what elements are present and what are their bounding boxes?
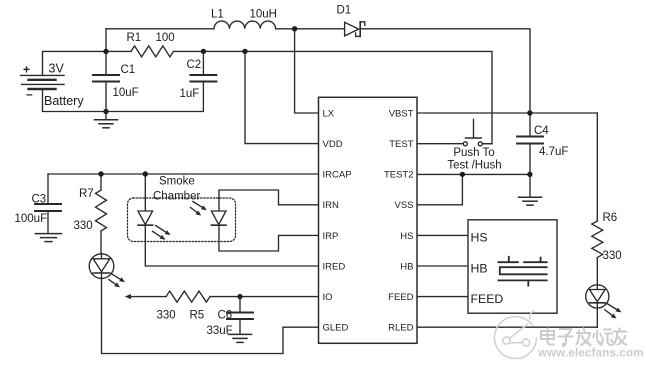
wire R5 left lead with arrow (130, 296, 167, 298)
svg-text:10uF: 10uF (113, 87, 139, 99)
svg-text:R5: R5 (190, 310, 205, 322)
resistor R6 (592, 221, 603, 257)
svg-text:IO: IO (323, 292, 333, 303)
diode D1 schottky (345, 22, 365, 37)
wire FEED stub (417, 296, 468, 298)
node TEST2/VSS (460, 172, 465, 177)
wire R7 top lead (100, 174, 102, 190)
node C2 top (201, 49, 206, 54)
svg-text:HB: HB (471, 261, 488, 275)
node LX branch (292, 26, 297, 31)
wire LX branch down to LX pin (295, 29, 319, 113)
photodiode inside chamber (191, 202, 227, 226)
resistor R5 (166, 291, 210, 302)
svg-text:Smoke: Smoke (159, 176, 195, 188)
node C4/gnd (527, 172, 532, 177)
wire C2 top lead (202, 51, 204, 75)
wire RLED rail (417, 326, 597, 328)
wire IRN pin to photodiode anode (219, 190, 319, 211)
svg-text:Battery: Battery (44, 94, 84, 108)
IC U1 (319, 97, 418, 343)
wire C3 ground stub (47, 211, 49, 233)
red LED (RLED) (586, 285, 622, 319)
node VBST/C4 (527, 110, 532, 115)
svg-text:Push To: Push To (453, 147, 494, 159)
wire top rail left (node A up to LX rail) (105, 29, 107, 52)
svg-text:R6: R6 (603, 212, 618, 224)
capacitor C3 (35, 204, 61, 211)
wire IRCAP rail (48, 173, 319, 175)
svg-text:www.elecfans.com: www.elecfans.com (537, 348, 644, 360)
wire switch right contact to drop (482, 143, 492, 145)
wire C1 top lead (105, 51, 107, 75)
wire photodiode cathode to IRP pin (219, 225, 319, 251)
wire C1 bottom lead (105, 82, 107, 112)
horn driver block (468, 220, 557, 313)
piezo horn symbol (498, 257, 546, 286)
wire C4 bottom lead (529, 144, 531, 175)
wire R7 bottom lead to green LED (100, 231, 102, 254)
ground under C6 (229, 334, 252, 342)
svg-text:C2: C2 (187, 59, 202, 71)
svg-text:IRCAP: IRCAP (323, 170, 352, 181)
wire R5 right lead (210, 296, 240, 298)
capacitor C2 (190, 75, 216, 82)
svg-text:33uF: 33uF (207, 325, 233, 337)
wire mid rail R1 right to switch drop (174, 51, 493, 143)
svg-text:+: + (23, 63, 30, 77)
wire IR LED anode from IRCAP rail (144, 174, 146, 211)
svg-text:TEST2: TEST2 (384, 170, 414, 181)
watermark logo circle (495, 311, 537, 359)
wire TEST2 rail (417, 173, 530, 175)
svg-text:R7: R7 (79, 188, 94, 200)
svg-text:VSS: VSS (394, 200, 413, 211)
wire C6 ground stub (239, 319, 241, 334)
ground under C3 (36, 234, 62, 242)
wire L1 to D1 anode (276, 28, 345, 30)
resistor R7 (96, 190, 107, 231)
wire battery minus to ground rail (43, 89, 107, 112)
svg-text:C3: C3 (32, 194, 47, 206)
wire C2 bottom to ground rail (106, 82, 203, 112)
capacitor C4 (517, 137, 543, 144)
wire HB stub (417, 265, 468, 267)
svg-text:D1: D1 (337, 5, 352, 17)
svg-text:C1: C1 (121, 64, 136, 76)
wire green LED cathode to GLED pin (102, 278, 319, 353)
svg-text:100uF: 100uF (15, 213, 48, 225)
wire R6 top lead (596, 113, 598, 221)
wire HS stub (417, 234, 468, 236)
inductor L1 (214, 21, 276, 29)
node gnd rail (103, 109, 108, 114)
svg-text:HS: HS (400, 231, 413, 242)
svg-text:IRED: IRED (323, 261, 346, 272)
node VDD branch (242, 49, 247, 54)
svg-text:LX: LX (323, 108, 335, 119)
smoke chamber enclosure (128, 198, 236, 242)
svg-text:C4: C4 (534, 125, 549, 137)
svg-text:C6: C6 (218, 310, 233, 322)
capacitor C6 (227, 313, 253, 320)
wire VBST pin rail to R6 branch (417, 112, 597, 114)
svg-text:R1: R1 (127, 32, 142, 44)
pushbutton SW1 (463, 119, 482, 146)
svg-text:GLED: GLED (323, 323, 349, 334)
ground under C1 (95, 120, 118, 128)
svg-text:330: 330 (74, 220, 93, 232)
green LED (GLED) (89, 254, 125, 288)
node R7/IRCAP (98, 171, 103, 176)
wire mid rail R1 left lead (106, 50, 131, 52)
wire D1 cathode to VBST corner (361, 29, 530, 113)
svg-text:VBST: VBST (389, 108, 414, 119)
wire IR LED cathode to IRED pin (145, 225, 318, 266)
wire TEST2 to VSS (417, 174, 462, 204)
node A (bat/R1/C1) (103, 49, 108, 54)
node IO/R5/C6 (237, 294, 242, 299)
watermark chinese glyphs (541, 328, 627, 347)
wire TEST pin to switch left contact (417, 143, 463, 145)
capacitor C1 (93, 75, 119, 82)
ground under C4 (519, 197, 542, 205)
svg-text:4.7uF: 4.7uF (539, 146, 568, 158)
svg-text:3V: 3V (49, 62, 65, 76)
wire R6 bottom lead to red LED (596, 258, 598, 286)
wire red LED cathode down (596, 308, 598, 327)
wire C6 top lead (239, 297, 241, 313)
svg-text:IRN: IRN (323, 200, 340, 211)
svg-text:FEED: FEED (388, 292, 413, 303)
svg-text:VDD: VDD (323, 139, 343, 150)
svg-text:RLED: RLED (388, 323, 413, 334)
svg-text:10uH: 10uH (250, 9, 278, 21)
resistor R1 (131, 46, 173, 57)
svg-text:–: – (26, 87, 33, 101)
wire LX rail to L1 (106, 28, 214, 30)
svg-text:Test /Hush: Test /Hush (447, 160, 501, 172)
wire C1 ground stub (105, 112, 107, 120)
svg-text:TEST: TEST (389, 139, 413, 150)
node IR LED/IRCAP (143, 171, 148, 176)
wire battery top to node A (43, 51, 107, 75)
svg-text:330: 330 (157, 310, 176, 322)
wire C4 ground stub (529, 174, 531, 196)
wire IO pin to node R5/C6 (240, 296, 319, 298)
wire C4 top lead (529, 113, 531, 136)
svg-text:IRP: IRP (323, 231, 339, 242)
svg-text:100: 100 (156, 32, 175, 44)
svg-text:L1: L1 (211, 9, 224, 21)
battery BT1 3V (21, 75, 65, 89)
svg-text:HS: HS (471, 231, 488, 245)
svg-text:Chamber: Chamber (153, 191, 200, 203)
svg-text:1uF: 1uF (180, 88, 200, 100)
svg-text:FEED: FEED (471, 292, 504, 306)
svg-text:HB: HB (400, 261, 413, 272)
svg-text:330: 330 (603, 250, 622, 262)
IR emitter LED inside chamber (138, 211, 171, 240)
wire VDD branch (245, 51, 319, 143)
wire C3 top lead (47, 174, 49, 204)
